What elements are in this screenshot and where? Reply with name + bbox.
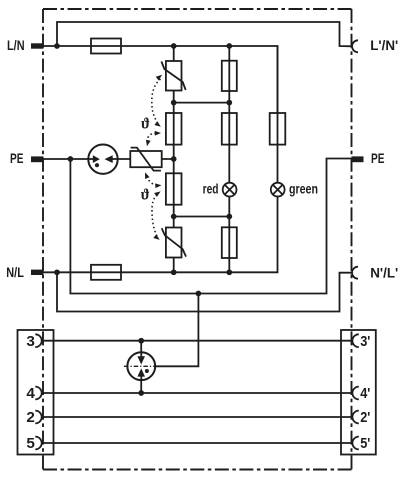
spark gap G1 [88, 145, 117, 174]
node N/L col1 junction [171, 269, 177, 275]
svg-text:L'/N': L'/N' [370, 38, 398, 53]
resistor R2 (thermal disconnector) [166, 173, 182, 204]
wire spark gap G2 vertical [140, 341, 142, 393]
svg-text:2': 2' [360, 409, 370, 425]
lower right terminal box [341, 330, 376, 455]
resistor R1 (thermal disconnector) [166, 113, 182, 145]
wire N/L line [43, 197, 278, 273]
connector socket 2' [352, 411, 358, 424]
wire spark gap G2 to PE line [156, 294, 199, 367]
wire N/L to N'/L' through-wire [57, 272, 352, 311]
thermal double arrow R1-V3 [147, 133, 156, 141]
svg-text:PE: PE [371, 150, 384, 166]
wire line 2 [42, 416, 353, 418]
svg-text:ϑ: ϑ [141, 116, 150, 132]
varistor V2 [166, 228, 182, 258]
node PE-G2 junction [196, 291, 202, 297]
svg-text:N'/L': N'/L' [370, 265, 398, 280]
wire node B horizontal [174, 216, 230, 218]
svg-text:N/L: N/L [6, 265, 24, 281]
svg-text:PE: PE [10, 150, 23, 166]
wire L/N line [43, 46, 278, 113]
lower left terminal box [18, 330, 54, 455]
node L/N col2 junction [226, 43, 232, 49]
thermal double arrow R2-V2 [152, 195, 158, 238]
svg-text:5: 5 [26, 435, 35, 452]
varistor V1 [166, 61, 182, 91]
lamp red [223, 183, 237, 197]
node A col1 junction [171, 100, 177, 106]
svg-text:4': 4' [360, 385, 370, 401]
node L/N col1 junction [171, 43, 177, 49]
svg-text:2: 2 [26, 409, 35, 426]
wire PE line [43, 158, 174, 160]
resistor R5 [222, 113, 237, 145]
thermal double arrow V3-R2 [147, 177, 157, 186]
node N/L junction [54, 269, 60, 275]
svg-text:3': 3' [360, 333, 370, 349]
connector socket 4' [352, 387, 358, 400]
node L/N junction [54, 43, 60, 49]
varistor V3 [130, 151, 161, 167]
terminal L/N [31, 43, 43, 48]
resistor R4 [222, 61, 237, 91]
wire PE distribution: left drop, bottom run, right riser to PE' [70, 159, 351, 294]
terminal PE right [352, 156, 364, 162]
fuse F1 [91, 39, 121, 54]
wire line 4 [42, 392, 353, 394]
node N/L col2 junction [226, 269, 232, 275]
wire line 5 [42, 442, 353, 444]
connector socket 4 [35, 387, 41, 400]
node B col2 junction [226, 214, 232, 220]
svg-text:red: red [203, 181, 219, 197]
resistor R7 [270, 113, 286, 145]
connector socket 3' [352, 334, 358, 347]
connector socket L'/N' [352, 40, 358, 52]
thermal double arrow V1-R1 [152, 79, 161, 122]
connector socket 5 [35, 437, 41, 450]
svg-text:3: 3 [26, 333, 35, 350]
wire column2 vertical [228, 46, 230, 272]
spark gap G2 (3-electrode) [127, 352, 155, 380]
node line4-G2 junction [138, 390, 144, 396]
node line3-G2 junction [138, 338, 144, 344]
node PE col1 junction [171, 156, 177, 162]
device boundary dash-dot border [43, 9, 352, 470]
node A col2 junction [226, 100, 232, 106]
fuse F2 [91, 265, 121, 280]
svg-text:ϑ: ϑ [141, 187, 150, 203]
wire column3 vertical [277, 46, 279, 197]
lamp green [271, 183, 285, 197]
connector socket N'/L' [352, 267, 358, 279]
terminal PE left [31, 156, 43, 162]
wire line 3 [42, 340, 353, 342]
connector socket 2 [35, 411, 41, 424]
connector socket 3 [35, 334, 41, 347]
connector socket 5' [352, 437, 358, 450]
svg-text:L/N: L/N [7, 38, 25, 54]
node PE left junction [68, 156, 74, 162]
resistor R6 [222, 227, 237, 258]
svg-text:5': 5' [360, 435, 370, 451]
wire node A horizontal [174, 102, 230, 104]
wire column1 vertical [173, 46, 175, 272]
svg-text:4: 4 [26, 385, 35, 402]
node B col1 junction [171, 214, 177, 220]
terminal N/L [31, 270, 43, 275]
svg-text:green: green [289, 181, 318, 197]
wire top through-wire L/N to L'/N' [57, 22, 352, 46]
